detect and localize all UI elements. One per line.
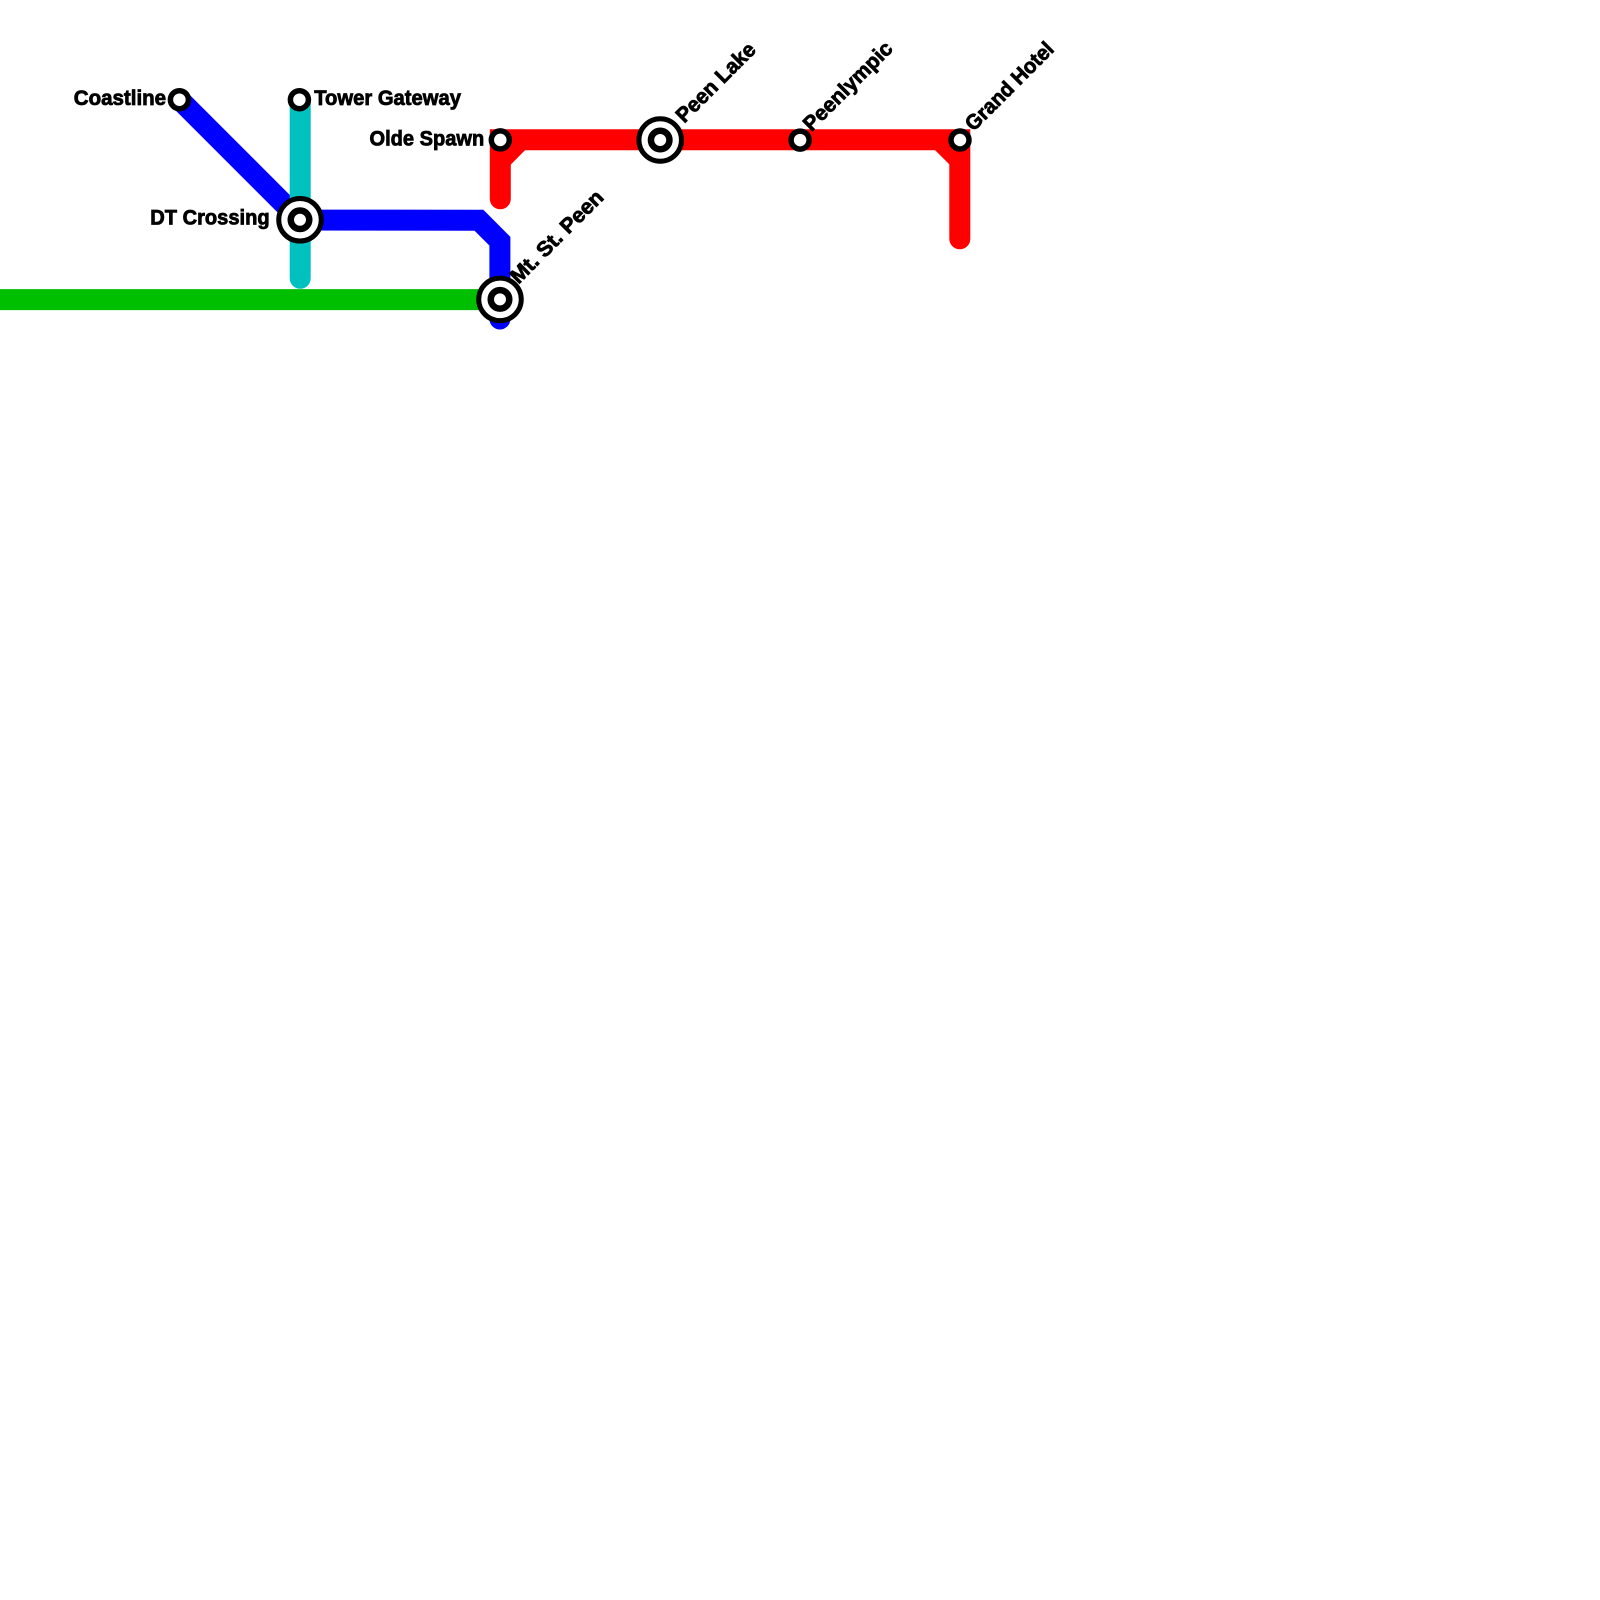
svg-text:Olde Spawn: Olde Spawn <box>370 128 485 151</box>
interchange Peen Lake <box>639 119 682 162</box>
cyan line <box>290 100 311 278</box>
station Olde Spawn <box>491 131 509 149</box>
svg-text:Tower Gateway: Tower Gateway <box>314 87 461 110</box>
svg-text:DT Crossing: DT Crossing <box>150 207 269 230</box>
green line <box>0 289 490 310</box>
interchange DT Crossing <box>279 199 322 242</box>
red line chamfer at Grand Hotel corner <box>940 140 960 160</box>
interchange Mt. St. Peen <box>479 278 522 321</box>
blue line <box>180 100 500 319</box>
svg-text:Coastline: Coastline <box>74 87 166 110</box>
station Tower Gateway <box>290 91 308 109</box>
station Peenlympic <box>791 131 809 149</box>
station Coastline <box>170 91 188 109</box>
red line chamfer at Olde Spawn corner <box>500 140 520 160</box>
red line <box>500 140 960 239</box>
station Grand Hotel <box>951 131 969 149</box>
